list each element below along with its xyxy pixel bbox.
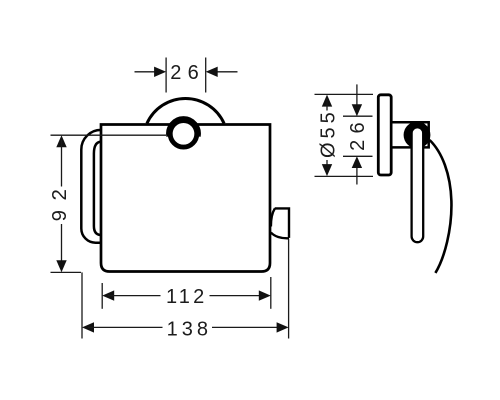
dimension 26 side: top extension line — [343, 115, 373, 117]
dimension 26 top: right leader and arrow — [206, 67, 238, 77]
dimension 112: value label — [166, 286, 208, 308]
spare hook outer curve — [271, 233, 289, 239]
dimension 92: bottom extension line — [51, 271, 82, 273]
roll bar outer outline — [81, 130, 101, 243]
svg-text:26: 26 — [170, 62, 205, 84]
side view pivot hub — [404, 122, 431, 149]
side view arm (roll bar profile) — [412, 127, 424, 242]
svg-text:26: 26 — [347, 116, 369, 151]
dimension D55: bottom extension line — [315, 175, 374, 177]
svg-text:112: 112 — [166, 286, 208, 308]
knob circle — [170, 121, 197, 148]
dimension 138: left extension line — [81, 272, 83, 338]
dimension 26 top: right extension line — [205, 58, 207, 93]
dimension D55: line and arrows — [322, 95, 332, 177]
dimension 112: right extension line — [270, 277, 272, 309]
spare hook top and right edge — [275, 208, 289, 238]
dimension 26 side: value label — [347, 116, 369, 151]
hump arc (mounting boss) — [147, 99, 224, 124]
svg-text:92: 92 — [48, 180, 71, 222]
dimension 26 side: bottom extension line — [343, 155, 373, 157]
dimension 112: left extension line — [101, 283, 103, 309]
dimension D55: value label — [318, 108, 340, 158]
dimension 26 side: top leader and arrow — [352, 84, 362, 116]
svg-text:138: 138 — [167, 319, 212, 341]
dimension 26 top: left leader and arrow — [135, 67, 167, 77]
cover plate — [101, 125, 270, 272]
dimension 138: line and arrows — [82, 322, 289, 332]
side view mounting block — [393, 122, 429, 147]
dimension 92: value label — [48, 180, 71, 222]
knob collar arc — [168, 118, 200, 137]
svg-text:Ø55: Ø55 — [318, 108, 340, 158]
spare hook inner curve — [271, 208, 275, 226]
dimension 26 top: value label — [170, 62, 205, 84]
roll bar inner outline — [94, 142, 101, 235]
dimension D55: top extension line — [315, 93, 374, 95]
side view cover flap curve — [430, 140, 452, 273]
dimension 26 top: left extension line — [165, 58, 167, 93]
dimension 92: dimension line with arrows — [56, 135, 66, 272]
dimension 26 side: bottom leader and arrow — [352, 156, 362, 184]
dimension 138: value label — [167, 319, 212, 341]
dimension 138: right extension line — [288, 239, 290, 339]
side view wall disc — [378, 95, 391, 175]
dimension 92: top extension line (also bar top edge) — [51, 134, 167, 136]
dimension 112: line and arrows — [102, 290, 271, 300]
